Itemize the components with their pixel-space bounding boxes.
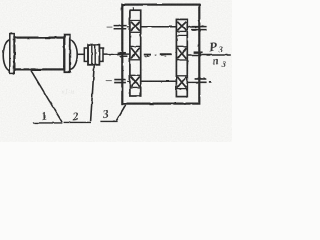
bottom shaft wire to right wall [187,81,199,83]
wall bearing, left middle [118,52,126,54]
small pen tick above left column [132,7,134,9]
left gear column [130,10,141,96]
wall bearing, right bottom [195,79,207,82]
left middle bearing X [131,48,140,59]
wall bearing, left bottom [114,80,126,83]
right gear column [176,19,187,96]
right column top bearing box [177,30,188,32]
wall bearing, right middle [194,51,203,53]
leader 1 underline [33,122,62,124]
coupling inner disc line 1 [91,45,93,64]
leader line 1 (motor) [31,71,62,123]
wall bearing, right top [192,27,207,30]
paper background [0,0,232,142]
left bottom shaft stub [127,80,130,82]
left column top bearing box [130,19,141,21]
motor right flange bar [64,35,69,73]
top shaft wire to right wall [187,26,198,28]
right column middle bearing box [177,46,188,48]
motor left flange bar [10,34,14,74]
motor right end-cap arc [70,40,77,69]
middle axis dash 2 [160,53,172,55]
leader 3 underline [100,120,117,122]
scan noise overlay [0,0,232,142]
coupling right hub [99,48,103,61]
wall bearing, left top [114,26,127,29]
right middle bearing X [177,48,186,59]
left bottom bearing X [131,76,140,86]
electric motor M (item 1): left end-cap arc [3,40,9,71]
bottom shaft wire between columns [141,80,177,82]
left top shaft stub [127,26,130,28]
gearbox housing (item 3) [122,5,199,104]
coupling (item 2): left hub [84,48,88,61]
motor body [14,38,64,70]
coupling body [88,45,99,65]
input shaft wire into gearbox [103,53,130,55]
left top axis stub [107,26,113,28]
left column bottom bearing box [130,74,141,76]
leader 2 underline [64,121,91,123]
output shaft wire [188,54,231,56]
left column middle bearing box [130,45,141,47]
leader line 2 (coupling) [91,65,95,121]
top shaft wire between columns [141,26,177,28]
right column extra gear line [177,34,188,36]
coupling inner disc line 2 [94,45,96,64]
leader line 3 (gearbox) [116,105,125,121]
left top bearing X [131,22,140,31]
right column bottom bearing box [177,75,188,77]
middle axis dot [155,54,157,56]
bottom-right axis dot [209,81,211,83]
middle axis dash 1 [143,54,151,56]
right top bearing X [177,22,186,31]
left bottom axis stub [106,80,112,82]
motor shaft wire [77,53,85,55]
right bottom bearing X [177,77,186,88]
